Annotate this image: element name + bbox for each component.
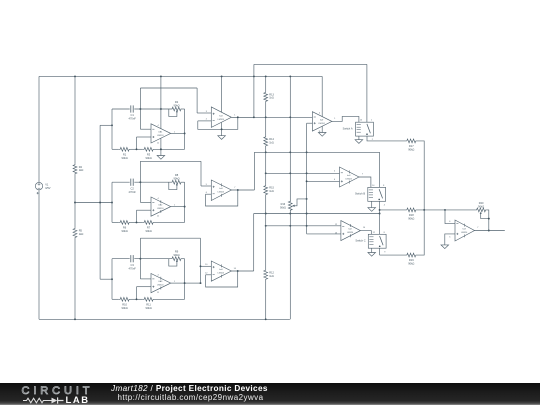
capacitor C2 [130,179,132,186]
wire block1 cap row left [112,108,130,110]
node bus3 dots [265,213,267,215]
svg-text:1kΩ: 1kΩ [79,232,84,236]
wire block2 feedback vertical [184,182,186,222]
wire bottom return rail [39,318,290,320]
wire bus1 row [231,116,312,118]
node switchB out dot [379,209,381,211]
wire block3 bottom row [112,298,119,300]
ground switchA [358,136,360,140]
wire block1 plus input [137,136,152,138]
wire OA4 vminus [321,126,323,132]
node opB plus dot [306,180,308,182]
wire block1 minus drop [139,88,141,129]
svg-text:OA1: OA1 [158,131,163,134]
ground OA1 [157,156,165,160]
svg-text:LM324: LM324 [345,179,352,181]
node input L dots [111,124,113,126]
resistor R14 [264,137,268,146]
node rail-junction dots [74,75,76,77]
ground follower1 [218,136,226,140]
svg-text:LM324: LM324 [157,208,164,210]
svg-text:4: 4 [157,125,159,127]
node wiper dot [306,198,308,200]
svg-text:1kΩ: 1kΩ [79,168,84,172]
node OA1 vminus dot [160,148,162,150]
wire OA4 output jog [332,116,359,122]
resistor R17 [407,139,416,143]
wire block3 output [171,282,185,284]
wire block3 cap row left [112,258,130,260]
wire block3 input L [100,278,112,280]
svg-text:OA2: OA2 [158,204,163,207]
wire switchB pole [379,152,381,187]
wire block1 feedback vertical [184,109,186,149]
wire bus2 row [254,151,379,153]
wire block1 output [171,132,185,134]
op-amp OA3-follower [211,261,231,281]
svg-text:6: 6 [206,192,208,194]
wire R17 to node [416,141,424,210]
node ladder bottom dot [265,318,267,320]
svg-text:5: 5 [206,184,208,186]
resistor R12 [264,270,268,279]
wire block3 pot to feedback [182,258,185,260]
wire follower3 plus input [201,265,212,267]
svg-text:V1: V1 [45,183,49,187]
wire ladder seg1 [265,76,267,92]
node tap1 dots [265,172,267,174]
svg-text:R11: R11 [146,302,151,306]
wire OA6 output [360,231,371,235]
svg-text:7: 7 [477,227,479,229]
wire follower1 plus input [197,112,211,114]
node block2 cap row dots [139,181,141,183]
wire block2 bottom right [155,221,185,223]
svg-text:1kΩ: 1kΩ [269,142,274,145]
wire switchC out row [380,254,407,256]
svg-text:C2: C2 [131,186,135,190]
wire ladder tap1 row [266,172,340,174]
svg-text:3: 3 [206,111,208,113]
svg-text:R2: R2 [175,100,179,104]
svg-text:90kΩ: 90kΩ [173,253,179,257]
resistor R10 [119,297,131,301]
svg-text:14: 14 [363,227,366,229]
svg-text:9: 9 [384,251,386,253]
svg-text:OA3: OA3 [158,280,163,283]
svg-text:4: 4 [319,113,321,115]
capacitor C1 [130,105,132,112]
svg-text:R19: R19 [409,258,414,262]
svg-text:R10: R10 [122,302,127,306]
svg-text:1kΩ: 1kΩ [269,97,274,100]
op-amp OA6 [341,221,361,241]
wire ladder seg2 [265,102,267,137]
wire opB plus row [307,180,340,182]
node follower3 fb dot [237,270,239,272]
svg-text:7: 7 [234,187,236,189]
wire follower1 minus input [198,120,212,122]
wire source bottom [38,190,40,319]
voltage source V1 [35,182,42,189]
svg-text:90kΩ: 90kΩ [122,229,128,233]
svg-text:14: 14 [234,268,237,270]
svg-text:14: 14 [372,185,375,187]
wire block3 feedback vertical [184,259,186,300]
wire ladder seg3 [265,146,267,186]
ground OA4 [318,133,326,137]
wire block2 x112 vertical [111,182,113,222]
wire block2 minus input [140,201,151,203]
ground switchB [371,201,373,207]
svg-text:LM324: LM324 [461,232,468,234]
node block3 ext dots [200,282,202,284]
wire block1 input L [100,124,112,126]
wire input bus vertical [99,125,101,279]
wire block3 bottom mid [131,298,143,300]
svg-text:90kΩ: 90kΩ [122,306,128,310]
wire block3 jog vertical [200,238,202,283]
svg-text:90kΩ: 90kΩ [146,229,152,233]
wire divider middle [74,175,76,228]
wire OA7 minus input [445,210,455,224]
wire block3 minus input [140,278,151,280]
node summing dots [423,209,425,211]
resistor R13 [264,92,268,101]
wire block3 x112 vertical [111,259,113,300]
svg-text:half: half [348,229,352,231]
wire switchB output [379,201,381,213]
wire switchC output [379,248,381,255]
svg-text:90kΩ: 90kΩ [280,206,286,209]
wire block2 pot to feedback [182,181,185,183]
node bus2 dots [265,151,267,153]
svg-text:90kΩ: 90kΩ [173,177,179,181]
wire block3 output extension [185,282,201,284]
switch Switch-C [368,234,386,248]
wire output bus rail [254,63,367,65]
svg-text:5: 5 [334,171,336,173]
op-amp OA7 [455,220,475,241]
wire potline upper [289,76,291,201]
wire follower2 output [231,189,254,191]
svg-text:R9: R9 [175,250,179,254]
svg-text:90kΩ: 90kΩ [146,306,152,310]
node divider dots [74,202,76,204]
svg-text:90kΩ: 90kΩ [408,147,414,151]
wire follower2 feedback [206,190,238,206]
node follower2 fb dot [237,189,239,191]
wire bus3 row [254,213,380,215]
resistor R1 [119,147,131,151]
wire OA5 output [359,177,371,187]
svg-text:6: 6 [334,179,336,181]
svg-text:90kΩ: 90kΩ [122,156,128,160]
wire block2 jog vertical [200,161,202,186]
svg-text:470nF: 470nF [129,117,137,121]
svg-text:Switch A: Switch A [343,127,353,131]
svg-text:1: 1 [334,118,336,120]
node block1 cap row dots [139,108,141,110]
wire opA plus row [307,122,313,124]
wire follower3 feedback [206,271,238,287]
svg-text:12: 12 [373,232,376,234]
svg-text:10: 10 [205,264,208,266]
op-amp OA1 [151,124,171,143]
svg-text:half: half [320,120,324,122]
wire block1 top row [140,87,197,89]
svg-text:R6: R6 [123,226,127,230]
wire ladder seg5 [265,279,267,319]
wire follower1 feedback [198,117,238,129]
svg-text:470nF: 470nF [129,266,137,270]
svg-text:LM324: LM324 [318,123,325,125]
resistor R19 [407,253,416,257]
wire node to pot [445,209,476,211]
node follower1 vminus dot [221,128,223,130]
wire follower1 vminus [221,123,223,136]
footer text [111,384,268,393]
wire block1 minus input [140,128,151,130]
wire pot to output [486,210,489,231]
svg-text:R17: R17 [409,144,414,148]
node block3 follower tap [200,265,202,267]
svg-text:Switch C: Switch C [355,239,365,243]
node pot fb dots [488,218,490,220]
wire block2 bottom row [112,221,119,223]
node follower1 fb dot [237,116,239,118]
svg-text:LM324: LM324 [157,285,164,287]
resistor R3 [143,147,155,151]
capacitor C3 [130,255,132,262]
wire OA1 supply [160,76,162,128]
svg-text:11: 11 [157,216,160,218]
node block3 output dot [184,282,186,284]
resistor R15 [264,185,268,195]
svg-text:half: half [462,229,466,231]
wire block1 bottom mid [131,148,143,150]
wire block3 plus input [137,286,152,288]
wire potline lower [289,210,291,319]
wire divider upper [74,76,76,163]
svg-text:R4: R4 [79,165,83,169]
wire follower3 out vertical [253,214,255,272]
resistor R5 [73,228,77,239]
svg-text:R5: R5 [79,229,83,233]
svg-text:4: 4 [157,275,159,277]
svg-text:4: 4 [384,204,386,206]
wire block1 bottom row [112,148,119,150]
svg-text:470nF: 470nF [129,190,137,194]
svg-text:4: 4 [157,198,159,200]
resistor R6 [119,221,131,225]
wire follower2 plus input [201,185,211,187]
svg-text:5: 5 [449,236,451,238]
svg-text:LM324: LM324 [218,273,225,275]
CircuitLab logo text [22,385,94,397]
wire switchA output [367,136,407,141]
wire block1 jog vertical [196,88,198,113]
svg-text:half: half [347,175,351,177]
wire follower1 output [231,116,254,118]
svg-text:2: 2 [206,119,208,121]
svg-text:R1: R1 [123,152,127,156]
wire block2 cap row left [112,181,130,183]
wire ladder seg4 [265,195,267,270]
wire block1 pot to feedback [182,108,185,110]
wire block3 bottom right [155,298,185,300]
node block2 output dot [184,206,186,208]
op-amp OA5 [340,167,360,187]
wire block2 cap row right [134,181,171,183]
potentiometer R16 [288,201,292,210]
potentiometer R8 [172,180,182,184]
wire follower1 supply [221,76,223,112]
wire divider tap row [75,202,112,204]
op-amp OA2-follower [211,180,231,201]
node block3 cap row dots [139,258,141,260]
svg-text:R7: R7 [147,226,151,230]
wire block3 top row [140,237,200,239]
switch Switch-A [356,122,374,136]
wire block2 output [171,206,185,208]
wire follower3 minus input [206,274,212,276]
footer bar [0,383,540,405]
svg-text:Switch B: Switch B [355,192,365,196]
node tap2 dots [265,225,267,227]
op-amp OA2 [151,197,171,216]
wire follower2 minus input [206,193,212,195]
potentiometer R20 [476,208,486,212]
node block1 output dot [184,132,186,134]
wire ladder tap2 row [266,225,341,227]
svg-text:0/5V: 0/5V [45,186,51,190]
switch Switch-B [368,187,386,201]
svg-text:C3: C3 [131,263,135,267]
op-amp OA4 [312,112,332,131]
svg-text:LM324: LM324 [218,119,225,121]
resistor R11 [143,297,155,301]
svg-text:11: 11 [157,292,160,294]
svg-text:1kΩ: 1kΩ [269,190,274,193]
wire OA7 plus input [445,234,455,245]
wire opC plus row [307,233,341,235]
resistor R18 [407,208,416,212]
svg-text:8: 8 [383,185,385,187]
wire source top [38,76,40,182]
resistor R7 [143,221,155,225]
resistor R4 [73,164,77,175]
wire block2 top row [140,160,201,162]
op-amp OA3 [151,274,171,293]
svg-text:12: 12 [205,273,208,275]
svg-text:1: 1 [234,114,236,116]
svg-text:90kΩ: 90kΩ [408,216,414,220]
svg-text:LM324: LM324 [347,232,354,234]
node block1 bottom dots [136,148,138,150]
wire top supply rail [39,75,322,77]
wire block1 x112 vertical [111,109,113,149]
svg-text:6: 6 [449,221,451,223]
wire follower2 out vertical [253,152,255,190]
svg-text:R8: R8 [175,173,179,177]
svg-text:R3: R3 [147,152,151,156]
svg-text:LM324: LM324 [218,192,225,194]
logo waveform symbol [21,396,67,405]
svg-text:R18: R18 [409,213,414,217]
wire x306 vertical [306,123,308,234]
svg-text:8: 8 [384,232,386,234]
svg-text:R20: R20 [479,201,484,205]
node bus1 dots [237,116,239,118]
svg-text:1kΩ: 1kΩ [269,275,274,278]
wire block3 minus drop [139,238,141,279]
op-amp OA1-follower [211,107,231,128]
svg-text:half: half [219,269,223,271]
wire OA4 supply [321,76,323,116]
wire follower1 out vertical [253,64,255,117]
node block2 bottom dots [136,221,138,223]
wire OA1 vminus [160,138,162,155]
wire R19 to node [416,210,424,255]
node block3 bottom dots [136,298,138,300]
svg-text:90kΩ: 90kΩ [173,103,179,107]
svg-text:half: half [219,188,223,190]
svg-text:C1: C1 [131,113,135,117]
svg-text:half: half [219,115,223,117]
svg-text:1: 1 [371,120,373,122]
wire switchA pole [366,64,368,122]
wire OA7 output [475,230,505,232]
svg-text:11: 11 [157,143,160,145]
wire block1 cap row right [134,108,171,110]
svg-text:7: 7 [362,174,364,176]
wire switchC pole [379,214,381,235]
svg-text:LM324: LM324 [157,135,164,137]
node tap dots [99,202,101,204]
svg-text:10: 10 [360,120,363,122]
potentiometer R2 [172,107,182,111]
wire R18 to node [416,209,445,211]
ground switchC [371,248,373,252]
wire block2 minus drop [139,161,141,202]
wire divider lower [74,238,76,319]
potentiometer R9 [172,257,182,261]
svg-text:90kΩ: 90kΩ [146,156,152,160]
wire block3 cap row right [134,258,171,260]
svg-text:90kΩ: 90kΩ [478,204,484,208]
svg-text:90kΩ: 90kΩ [408,262,414,266]
wire block1 bottom right [155,148,185,150]
wire follower3 output [231,270,253,272]
wire block2 plus input [137,209,152,211]
wire block2 bottom mid [131,221,143,223]
ground OA7 [441,245,449,249]
